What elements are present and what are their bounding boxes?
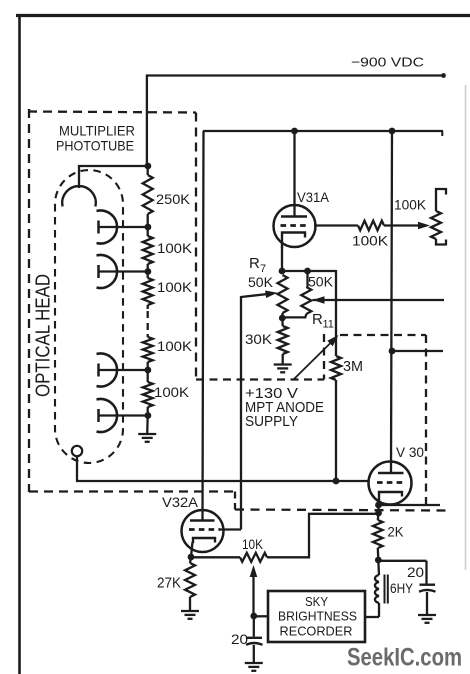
label V 30 (396, 444, 424, 460)
triode V30 (369, 131, 412, 505)
label SKY BRIGHTNESS RECORDER (278, 594, 357, 639)
+130V supply dashed boundary (196, 334, 426, 505)
label 100K (1) (157, 240, 193, 256)
node plate bus / V31A plate (291, 128, 298, 135)
wire V31A cathode (281, 247, 283, 271)
wire V32A cathode (191, 542, 193, 557)
label MULTIPLIER PHOTOTUBE (56, 123, 135, 154)
wire anode lead (76, 456, 369, 481)
node 2K bottom (375, 557, 382, 564)
svg-text:MULTIPLIER: MULTIPLIER (59, 123, 135, 139)
arrow +130V points to 3M node (294, 335, 339, 379)
label -900 VDC (351, 55, 424, 70)
resistor 3M (331, 356, 341, 481)
wire V32A cathode to 10K (191, 556, 240, 558)
svg-text:SeekIC.com: SeekIC.com (347, 644, 462, 672)
ground (27K) (181, 611, 199, 619)
svg-text:6HY: 6HY (390, 580, 414, 596)
ground (output cap) (418, 615, 436, 623)
ground (recorder input cap) (245, 663, 263, 671)
wire cathode chain feed (146, 75, 148, 168)
wire V30 cathode stub right (379, 504, 441, 506)
svg-text:−900 VDC: −900 VDC (351, 55, 424, 70)
svg-text:V32A: V32A (162, 494, 199, 510)
label 100K (3) (157, 338, 193, 354)
phototube envelope (dashed stadium) (55, 170, 123, 463)
label 6HY (390, 580, 414, 596)
svg-text:100K: 100K (352, 233, 389, 249)
svg-text:100K: 100K (154, 384, 190, 400)
watermark SeekIC.com (347, 644, 462, 672)
wire chain to ground (146, 416, 149, 435)
potentiometer R11 50K (283, 271, 312, 317)
label 100K (series) (352, 233, 389, 249)
node 3M / V30 grid (333, 478, 340, 485)
node R7 bottom / 30K (279, 315, 286, 322)
anode terminal (72, 446, 82, 456)
label 250K (156, 191, 191, 207)
resistor 100K (series) (358, 221, 384, 231)
wire 10K wiper (250, 565, 258, 616)
svg-text:10K: 10K (242, 536, 264, 552)
label 100K (2) (157, 279, 193, 295)
wire omitted-stages (dashed) (147, 311, 149, 334)
photocathode (62, 165, 96, 207)
svg-text:PHOTOTUBE: PHOTOTUBE (56, 138, 134, 154)
wire 10K to V30 cathode (267, 514, 379, 558)
label 50K (R11) (308, 274, 334, 290)
svg-text:RECORDER: RECORDER (280, 624, 353, 639)
svg-text:100K: 100K (157, 240, 193, 256)
label R7 (249, 255, 266, 275)
svg-text:11: 11 (323, 319, 334, 331)
node dynode 3 tap (145, 367, 152, 374)
svg-text:100K: 100K (394, 197, 427, 213)
svg-text:R: R (249, 255, 260, 272)
svg-text:27K: 27K (157, 576, 181, 592)
label OPTICAL HEAD (33, 274, 55, 397)
label +130 V MPT ANODE SUPPLY (245, 386, 324, 430)
ground (30K) (274, 365, 292, 373)
node wiper / recorder (250, 613, 257, 620)
node plate-bus stub (389, 348, 396, 355)
svg-text:SUPPLY: SUPPLY (245, 414, 298, 430)
svg-text:OPTICAL HEAD: OPTICAL HEAD (33, 274, 55, 397)
triode V31A (274, 131, 316, 248)
resistor 250K (143, 166, 153, 227)
wire photocathode to chain (78, 165, 148, 167)
capacitor 20 (recorder input) (246, 616, 263, 663)
dynode 2 (97, 255, 149, 288)
triode V32A (182, 131, 224, 552)
optical head dashed box (28, 109, 235, 510)
capacitor 20 (output) (419, 585, 436, 615)
label 20 (output cap) (407, 564, 424, 580)
sky brightness recorder box (254, 591, 365, 642)
node chain top (145, 163, 152, 170)
potentiometer 100K (balance) (431, 188, 446, 246)
svg-text:30K: 30K (245, 331, 273, 347)
label 50K (R7) (248, 274, 274, 290)
wire V32A grid (220, 528, 241, 530)
wire R11 branch down (335, 270, 337, 356)
scan page edge (465, 85, 467, 570)
label 3M (343, 358, 363, 375)
wire stub out (392, 350, 443, 352)
label 2K (388, 524, 405, 540)
svg-text:100K: 100K (157, 338, 193, 354)
wire V30 cathode (377, 503, 379, 515)
svg-text:SKY: SKY (305, 594, 328, 609)
wire V31A cathode to R11 top (282, 270, 336, 272)
label 30K (245, 331, 273, 347)
svg-text:3M: 3M (343, 358, 363, 375)
wire -900 VDC bus (146, 73, 446, 78)
wire R11 wiper (313, 296, 445, 304)
dynode 1 (97, 211, 149, 244)
wire to balance pot (384, 222, 430, 230)
node R11 top (304, 268, 311, 275)
resistor 2K (373, 513, 383, 560)
label 20 (recorder input cap) (231, 631, 248, 647)
svg-text:R: R (312, 311, 323, 328)
svg-text:20: 20 (231, 631, 248, 647)
node V30 cathode a (375, 502, 382, 509)
label R11 (312, 311, 334, 331)
svg-text:50K: 50K (248, 274, 274, 290)
node dynode 2 tap (145, 268, 152, 275)
node dynode 4 tap (145, 412, 152, 419)
wire V31A grid (314, 224, 358, 226)
node plate bus / V30 plate (389, 128, 396, 135)
svg-text:2K: 2K (388, 524, 405, 540)
svg-text:V 30: V 30 (396, 444, 424, 460)
resistor 100K (2) (143, 272, 153, 310)
dynode 4 (97, 399, 149, 432)
label 100K (balance pot) (394, 197, 427, 213)
resistor 27K (185, 557, 195, 610)
potentiometer R7 50K (278, 275, 288, 318)
node V31A cathode / R7 (279, 268, 286, 275)
dynode 3 (97, 354, 149, 387)
label V31A (297, 189, 330, 205)
label 27K (157, 576, 181, 592)
label 10K (242, 536, 264, 552)
ground (divider chain) (138, 434, 156, 442)
resistor 30K (278, 318, 288, 364)
node V32A cathode (188, 554, 195, 561)
svg-text:BRIGHTNESS: BRIGHTNESS (278, 609, 357, 624)
dashed boundary (lower) (235, 510, 447, 511)
resistor 100K (1) (143, 227, 153, 272)
resistor 100K (3) (143, 334, 153, 370)
node V30 cathode b (375, 510, 382, 517)
label V32A (162, 494, 199, 510)
svg-text:250K: 250K (156, 191, 191, 207)
wire plate bus (203, 131, 443, 136)
wire R7 wiper (241, 291, 278, 530)
wire 2K to output cap (378, 561, 426, 584)
node dynode 1 tap (145, 224, 152, 231)
inductor 6HY (364, 560, 388, 617)
svg-text:20: 20 (407, 564, 424, 580)
resistor 100K (4) (143, 370, 153, 416)
svg-text:100K: 100K (157, 279, 193, 295)
svg-text:50K: 50K (308, 274, 334, 290)
potentiometer 10K (240, 553, 267, 562)
svg-text:V31A: V31A (297, 189, 330, 205)
label 100K (4) (154, 384, 190, 400)
